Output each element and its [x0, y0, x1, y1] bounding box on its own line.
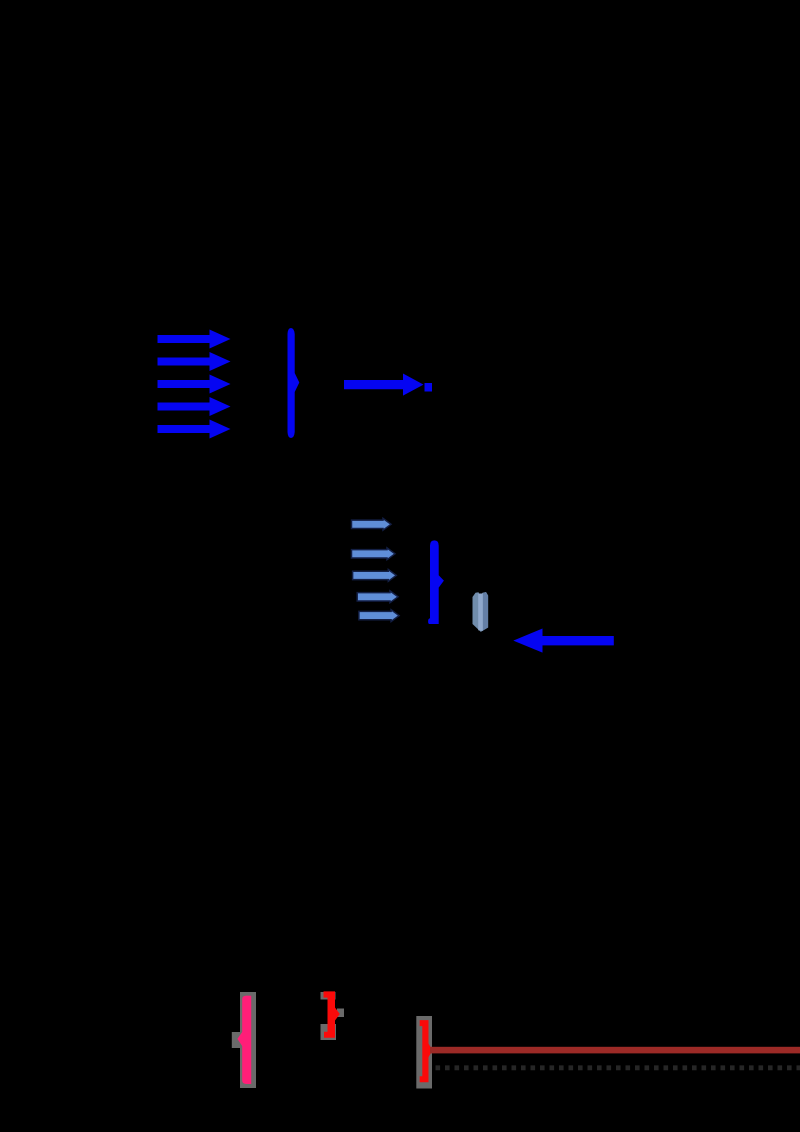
incident ray arrow 4 [158, 397, 231, 416]
converging ray arrow 4 [357, 591, 398, 603]
incident ray arrow 3 [158, 375, 231, 394]
focal point square [425, 383, 433, 392]
lens L2 (short blue lens with centre spike) [428, 540, 444, 624]
converging ray arrow 1 (small steel blue) [352, 518, 392, 530]
incident ray arrow 2 [158, 352, 231, 371]
return ray arrow (left) [513, 629, 614, 653]
gray brace fragments behind image brace A [321, 992, 345, 1040]
optical axis arrow (right) [344, 374, 424, 396]
gray bar behind object brace [232, 992, 256, 1088]
prism / crystal object [473, 592, 489, 632]
converging ray arrow 3 [353, 570, 397, 582]
image brace A (red, small, opens right) [324, 991, 340, 1037]
object brace (pink, opens left) [237, 996, 251, 1084]
incident ray arrow 1 [158, 330, 231, 349]
incident ray arrow 5 [158, 420, 231, 439]
lens L1 (tall thin blue lens with centre spike) [288, 328, 300, 438]
dotted reference line (dark gray) [436, 1065, 800, 1070]
converging ray arrow 2 [352, 548, 396, 560]
converging ray arrow 5 [359, 610, 399, 622]
image brace B (red, tall, opens right) [420, 1020, 433, 1082]
gray bar behind image brace B [416, 1016, 432, 1089]
focal length line (dark red) [430, 1047, 800, 1054]
